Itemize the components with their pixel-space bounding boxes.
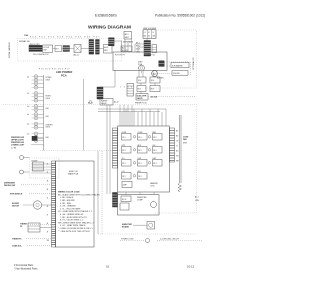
ice maker box xyxy=(171,63,189,68)
relay R5 box xyxy=(138,144,148,153)
svg-text:4-5: 4-5 xyxy=(27,124,29,126)
svg-text:J2: J2 xyxy=(47,172,49,174)
svg-text:4-2: 4-2 xyxy=(27,93,29,95)
connector J2 pin strip xyxy=(144,41,151,57)
overload link wire xyxy=(133,224,147,226)
svg-text:L1: L1 xyxy=(144,32,146,34)
ice dispenser solenoid box xyxy=(28,223,52,232)
damper heater box xyxy=(122,182,132,188)
svg-text:OPTIONAL ICE: OPTIONAL ICE xyxy=(192,57,195,70)
svg-text:BLACK: BLACK xyxy=(122,49,129,52)
svg-text:8. VT - VIOLET WIRE 1, 2: 8. VT - VIOLET WIRE 1, 2 xyxy=(60,220,84,222)
svg-text:3. RD - RED: 3. RD - RED xyxy=(60,203,72,205)
valve feed wires xyxy=(100,70,157,93)
svg-text:SW: SW xyxy=(43,49,46,51)
LED lamp DS8 xyxy=(32,105,44,109)
dotted wires to ice maker xyxy=(157,62,190,75)
connector J6 pin strip xyxy=(96,40,100,55)
svg-text:(A1-5): (A1-5) xyxy=(74,53,80,56)
LED circuit numbers xyxy=(27,76,29,135)
svg-text:* - USED ON SOME MODELS ONLY 1: * - USED ON SOME MODELS ONLY 1 xyxy=(58,228,93,230)
run capacitor label xyxy=(122,223,132,229)
svg-text:J10: J10 xyxy=(47,240,50,242)
svg-text:ICE BIN: ICE BIN xyxy=(173,73,180,75)
svg-text:4-3 GROUND CIRCUIT: 4-3 GROUND CIRCUIT xyxy=(160,239,180,241)
LED lamp DS9 xyxy=(32,108,44,112)
earth run dotted xyxy=(157,239,203,241)
svg-text:4-7 BK: 4-7 BK xyxy=(11,147,17,149)
svg-text:BK - BLACK WIRE WITH COLORED T: BK - BLACK WIRE WITH COLORED TRACER xyxy=(58,193,100,196)
svg-text:CTRL: CTRL xyxy=(150,186,155,188)
svg-text:P40 CONN BLOCK: P40 CONN BLOCK xyxy=(33,54,49,56)
connector A1-8 strip xyxy=(113,193,118,208)
relay R2 box xyxy=(138,132,148,140)
svg-text:Publication No. 5995581002 (10: Publication No. 5995581002 (1012) xyxy=(155,14,205,18)
main control board U4 xyxy=(118,126,170,192)
relay R6 box xyxy=(153,145,163,153)
LED lamp DS4 xyxy=(32,86,44,90)
svg-text:2. BR - BROWN: 2. BR - BROWN xyxy=(60,200,75,202)
svg-text:ICE MAKER: ICE MAKER xyxy=(172,64,183,67)
svg-text:1. BK - BLACK: 1. BK - BLACK xyxy=(60,196,74,199)
svg-text:13A: 13A xyxy=(24,34,28,37)
freezer light switch xyxy=(31,136,44,145)
relay R11 box xyxy=(138,171,148,179)
svg-text:COND: COND xyxy=(183,137,189,139)
mid harness vertical wires xyxy=(98,105,166,234)
svg-text:FRESH FOOD: FRESH FOOD xyxy=(135,102,147,104)
svg-text:J4: J4 xyxy=(47,189,49,191)
svg-text:P12 P14: P12 P14 xyxy=(148,54,155,56)
svg-text:YL: YL xyxy=(176,146,178,148)
svg-text:5. YL - YELLOW WIRE: 5. YL - YELLOW WIRE xyxy=(60,208,81,210)
relay R8 box xyxy=(138,158,148,166)
LED lamp DS1 xyxy=(32,75,44,79)
LED lamp DS2 xyxy=(32,78,44,82)
LED pin labels right xyxy=(46,77,54,139)
condenser fan label xyxy=(183,137,189,145)
freezer section dashed bus xyxy=(40,149,122,151)
relay R10 box xyxy=(122,171,132,179)
svg-text:EI28BS56IS: EI28BS56IS xyxy=(95,13,117,18)
dotted wire to right edge xyxy=(148,96,197,98)
freezer lamp DS11 xyxy=(20,156,30,160)
svg-text:J7: J7 xyxy=(47,215,49,217)
LED lamp DS6 xyxy=(32,95,44,99)
condenser fan feed wire xyxy=(178,115,182,192)
water valve connector strip J8 xyxy=(97,87,103,99)
connector J7 pin strip xyxy=(109,38,115,46)
svg-text:9. GY - GRAY WIRE TRACE: 9. GY - GRAY WIRE TRACE xyxy=(60,224,86,227)
water switch label xyxy=(10,194,52,196)
svg-text:VALVE: VALVE xyxy=(137,97,144,100)
LED lamp DS11 xyxy=(32,116,44,120)
footer functional parts note xyxy=(14,264,38,270)
svg-text:RC-6: RC-6 xyxy=(122,199,126,201)
LED lamp DS13 xyxy=(32,126,44,130)
node circles inside board xyxy=(133,136,150,177)
thermistor RT2 label xyxy=(12,239,52,241)
connector A1-1 on board xyxy=(159,61,164,67)
svg-text:VALVE: VALVE xyxy=(101,102,107,105)
svg-text:SIGNAL HARNESS: SIGNAL HARNESS xyxy=(8,41,11,58)
LED lamp DS10 xyxy=(32,113,44,117)
svg-text:A1-10A: A1-10A xyxy=(151,96,158,99)
compressor start device xyxy=(120,203,129,210)
LED lamp DS7 xyxy=(32,99,44,103)
line filter FL1 xyxy=(29,44,42,52)
ESEC main board U3 xyxy=(56,161,95,247)
LED lamp DS15 xyxy=(32,135,44,139)
connector J5 pin strip xyxy=(89,40,94,55)
compressor motor M3 xyxy=(151,202,157,208)
damper text xyxy=(150,182,158,188)
svg-text:MAIN PCA: MAIN PCA xyxy=(68,173,79,176)
terminal block TB1 xyxy=(63,46,70,52)
svg-text:4-4: 4-4 xyxy=(27,114,29,116)
ice container box xyxy=(172,71,188,76)
svg-text:WIRING DIAGRAM: WIRING DIAGRAM xyxy=(88,25,131,31)
svg-text:10-12: 10-12 xyxy=(187,264,195,268)
svg-text:W: W xyxy=(148,36,150,38)
board right pin labels xyxy=(176,131,180,163)
svg-text:LOWER LIGHT: LOWER LIGHT xyxy=(11,145,25,147)
svg-text:* Non-Illustrated Parts: * Non-Illustrated Parts xyxy=(14,267,38,270)
svg-text:POWER CORD: POWER CORD xyxy=(121,239,134,241)
svg-text:DISPENSER: DISPENSER xyxy=(4,183,16,185)
optional ice maker dashed enclosure xyxy=(145,30,197,88)
svg-text:DISP: DISP xyxy=(138,62,143,64)
relay R4 box xyxy=(122,145,132,153)
pilot lamp node xyxy=(89,101,92,104)
auger motor M1 xyxy=(139,65,145,71)
freezer light label xyxy=(11,137,25,150)
svg-text:COMP: COMP xyxy=(137,200,143,202)
wire runs inside signal box xyxy=(42,46,114,49)
thermostat TH1 xyxy=(74,45,82,57)
svg-text:THERM FZ: THERM FZ xyxy=(12,239,22,241)
svg-text:SOL: SOL xyxy=(138,80,142,82)
svg-text:BOARD: BOARD xyxy=(122,226,130,229)
LED lamp DS12 xyxy=(32,122,44,126)
dispenser motor M2 xyxy=(152,71,164,80)
ESEC ladder pin labels xyxy=(47,164,50,243)
freezer lamp DS12 xyxy=(20,170,30,174)
svg-text:A1-10: A1-10 xyxy=(114,101,119,104)
svg-text:MTR: MTR xyxy=(183,143,188,145)
svg-text:19: 19 xyxy=(106,265,110,269)
relay R1 box xyxy=(122,132,132,140)
board right ladder J12 xyxy=(170,128,175,162)
svg-text:A1-3: A1-3 xyxy=(104,46,108,49)
power cord dotted lead xyxy=(120,239,150,243)
svg-text:SOL: SOL xyxy=(151,80,155,82)
svg-text:GY - GRAY WIRE WITH TRACER 1,: GY - GRAY WIRE WITH TRACER 1, 2 xyxy=(58,210,93,213)
svg-text:SIGNAL NO.: SIGNAL NO. xyxy=(19,40,31,43)
svg-text:PCA: PCA xyxy=(61,74,67,78)
overload protector box xyxy=(147,222,155,230)
filter module A1-3 xyxy=(104,45,113,54)
svg-text:4-1: 4-1 xyxy=(27,76,29,78)
crusher solenoid label xyxy=(12,246,52,248)
LED POWER PCA label xyxy=(56,70,72,77)
thermistor RT1 label xyxy=(20,224,52,229)
svg-text:M: M xyxy=(153,72,155,76)
svg-text:P60 P61 P62 P63 P64 P65: P60 P61 P62 P63 P64 P65 P66 P67 xyxy=(30,37,101,39)
LED bus wire xyxy=(43,75,45,150)
svg-text:WH - WHITE WIRE WITH TRACER 1,: WH - WHITE WIRE WITH TRACER 1, 2 xyxy=(58,221,95,224)
relay R9 box xyxy=(153,158,163,166)
right margin connector labels xyxy=(195,196,200,202)
svg-text:J3: J3 xyxy=(47,181,49,183)
solenoid S2 box xyxy=(137,77,146,83)
relay R3 box xyxy=(153,131,163,140)
dotted mid wire xyxy=(101,151,103,234)
svg-text:J9: J9 xyxy=(47,232,49,234)
optional signal dashed box xyxy=(18,39,122,62)
svg-text:AUGER: AUGER xyxy=(157,76,164,79)
dual water valve V2 xyxy=(136,94,158,101)
svg-text:LED POWER: LED POWER xyxy=(56,70,72,74)
svg-text:A1-12: A1-12 xyxy=(88,101,93,104)
board left ladder J11 xyxy=(113,128,118,168)
wires feeding dispenser board xyxy=(114,38,147,73)
svg-text:** - SEE NOTE FOR THIS OPTION: ** - SEE NOTE FOR THIS OPTION xyxy=(58,231,90,233)
interlock relay K1 xyxy=(55,46,62,52)
svg-text:P23 P24 P25 P26 P27: P23 P24 P25 P26 P27 xyxy=(39,68,70,70)
svg-text:4-3: 4-3 xyxy=(27,106,29,108)
svg-text:DAMPER: DAMPER xyxy=(150,182,158,185)
compressor inverter box xyxy=(118,195,160,216)
svg-text:MAIN PWR: MAIN PWR xyxy=(122,223,132,226)
svg-text:WIRING COLOR CODE: WIRING COLOR CODE xyxy=(58,192,80,194)
svg-text:CUBE SOL: CUBE SOL xyxy=(12,246,23,248)
ESEC connector ladder J10 xyxy=(52,161,56,247)
valve coil strip J9 xyxy=(127,84,134,97)
connector A2-6 xyxy=(121,46,132,52)
svg-text:7. BU - BLUE WIRE WITH TR: 7. BU - BLUE WIRE WITH TR xyxy=(60,217,87,219)
auger motor M4 xyxy=(12,201,52,209)
svg-text:AUGER: AUGER xyxy=(12,202,19,205)
LED lamp DS3 xyxy=(32,82,44,86)
compressor sub relay xyxy=(121,196,131,202)
wiring color code legend xyxy=(58,192,100,233)
LED lamp DS16 xyxy=(32,139,44,143)
svg-text:THERM: THERM xyxy=(20,224,27,226)
svg-text:PADDLE SW: PADDLE SW xyxy=(4,184,15,187)
svg-text:6. GN - GREEN WIRE W1: 6. GN - GREEN WIRE W1 xyxy=(60,214,84,216)
svg-text:LINE VOLTAGE: LINE VOLTAGE xyxy=(143,27,157,30)
LED lamp DS5 xyxy=(32,92,44,96)
svg-text:A1-2: A1-2 xyxy=(195,196,199,199)
door switch S1 xyxy=(33,45,53,56)
board to compressor links xyxy=(126,192,154,195)
svg-text:A2-1: A2-1 xyxy=(125,33,129,36)
svg-text:P2 P4 P7 P9: P2 P4 P7 P9 xyxy=(115,54,125,56)
fresh food section dashed bus xyxy=(3,103,197,105)
connector A2-1 xyxy=(123,32,134,44)
ground bus dotted xyxy=(98,233,196,235)
power terminal block TB2 xyxy=(143,30,156,38)
LED lamp DS14 xyxy=(32,132,44,136)
machine compartment dashed edge xyxy=(155,104,197,213)
J2 pin labels xyxy=(136,42,140,53)
connector J3 small box xyxy=(152,45,157,53)
svg-text:J6: J6 xyxy=(47,206,49,208)
svg-text:J5: J5 xyxy=(47,198,49,200)
relay R7 box xyxy=(122,158,132,166)
svg-text:MOTOR: MOTOR xyxy=(12,206,20,208)
relay box K3 xyxy=(150,86,160,92)
LED power feed wire xyxy=(83,79,85,150)
svg-text:J1: J1 xyxy=(47,164,49,166)
dispenser user interface dashed box xyxy=(30,158,60,178)
svg-text:ESEC 30: ESEC 30 xyxy=(69,171,78,173)
solenoid S3 box xyxy=(150,77,160,83)
svg-text:4-6: 4-6 xyxy=(27,134,29,136)
mullion heater label xyxy=(4,183,52,188)
relay box K2 xyxy=(137,86,146,92)
svg-text:WTR SWITCH: WTR SWITCH xyxy=(10,194,23,196)
dispenser control board U2 xyxy=(113,52,167,70)
water valve box V1 xyxy=(100,99,119,106)
svg-text:MAIN HARN: MAIN HARN xyxy=(123,41,134,44)
svg-text:LINE FILTER: LINE FILTER xyxy=(29,44,40,46)
svg-text:1 2 3 4: 1 2 3 4 xyxy=(120,86,133,88)
svg-text:4. OR - ORANGE: 4. OR - ORANGE xyxy=(60,205,76,208)
